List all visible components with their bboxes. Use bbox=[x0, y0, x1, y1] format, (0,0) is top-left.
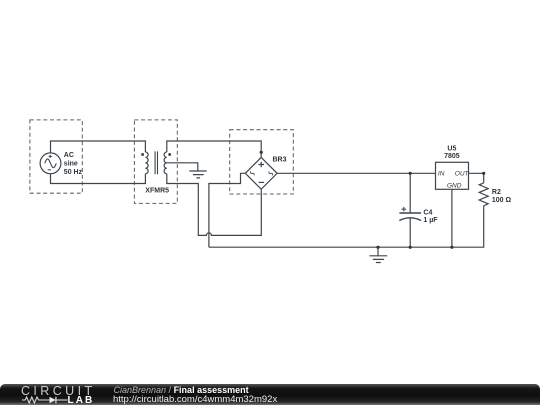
AC sine wave bbox=[45, 159, 57, 168]
svg-text:AC: AC bbox=[64, 152, 74, 159]
junction dot ground bbox=[376, 246, 379, 249]
transformer XFMR5 primary stem+coil bbox=[145, 152, 148, 174]
wire bridge right vertex to U5 IN bbox=[277, 172, 435, 174]
svg-text:1 µF: 1 µF bbox=[423, 217, 438, 224]
wire top rail V1 to XFMR primary bbox=[51, 141, 146, 153]
ground (center tap) bbox=[189, 171, 206, 178]
C4 plus mark bbox=[402, 207, 407, 212]
wire bridge left vertex to bottom rail bbox=[209, 173, 245, 247]
phase dot primary bbox=[141, 153, 144, 156]
logo resistor-diode art bbox=[22, 395, 72, 405]
CircuitLab logo text bbox=[21, 386, 96, 396]
svg-text:R2: R2 bbox=[492, 189, 501, 196]
dashed box XFMR5 bbox=[134, 120, 177, 203]
junction dot bridge top bbox=[260, 151, 263, 154]
svg-text:GND: GND bbox=[447, 182, 462, 189]
transformer XFMR5 secondary coil bbox=[164, 152, 167, 174]
svg-text:XFMR5: XFMR5 bbox=[145, 188, 169, 195]
logo LAB bbox=[68, 396, 95, 405]
junction dot C4 bottom bbox=[409, 246, 412, 249]
wire U5 GND to bottom rail bbox=[451, 189, 453, 247]
wire AC bottom to XFMR primary bottom bbox=[51, 174, 146, 184]
wire XFMR center tap bbox=[167, 163, 198, 171]
bridge rectifier BR3 diamond bbox=[245, 157, 277, 189]
wire XFMR secondary bottom to bridge bottom (with hop) bbox=[167, 174, 261, 236]
wire XFMR secondary top to bridge top bbox=[167, 141, 261, 157]
wire U5 OUT to R2 bbox=[469, 173, 484, 183]
dashed box AC source bbox=[30, 120, 82, 193]
ground (bottom rail) bbox=[369, 247, 387, 262]
wire bottom rail bbox=[209, 206, 484, 247]
bridge tilde left bbox=[250, 171, 254, 175]
capacitor C4 plates bbox=[399, 212, 421, 214]
junction dot R2 top bbox=[482, 172, 485, 175]
svg-text:OUT: OUT bbox=[455, 170, 470, 177]
svg-text:50 Hz: 50 Hz bbox=[64, 169, 83, 176]
AC plus mark bbox=[49, 155, 52, 158]
transformer core lines bbox=[155, 151, 157, 174]
wire C4 bottom branch bbox=[409, 218, 411, 248]
svg-text:100 Ω: 100 Ω bbox=[492, 197, 512, 204]
svg-text:BR3: BR3 bbox=[273, 156, 287, 163]
svg-text:C4: C4 bbox=[423, 210, 432, 217]
bottom info bar bbox=[0, 384, 540, 405]
resistor R2 zigzag bbox=[479, 183, 488, 206]
junction dot C4 top bbox=[409, 172, 412, 175]
AC source V1 circle bbox=[40, 153, 61, 174]
dashed box BR3 bbox=[230, 130, 294, 194]
phase dot secondary bbox=[168, 153, 171, 156]
AC minus mark bbox=[48, 169, 51, 171]
regulator U5 box bbox=[436, 162, 469, 189]
bridge plus mark bbox=[258, 162, 264, 168]
svg-text:7805: 7805 bbox=[444, 153, 460, 160]
url line bbox=[113, 395, 277, 405]
attribution line bbox=[114, 386, 249, 395]
svg-text:IN: IN bbox=[438, 170, 445, 177]
bridge minus mark bbox=[259, 181, 265, 183]
svg-text:U5: U5 bbox=[447, 146, 456, 153]
wire C4 top branch bbox=[409, 173, 411, 213]
junction dot U5 GND bbox=[450, 246, 453, 249]
bridge tilde right bbox=[269, 171, 273, 175]
svg-text:sine: sine bbox=[64, 161, 78, 168]
